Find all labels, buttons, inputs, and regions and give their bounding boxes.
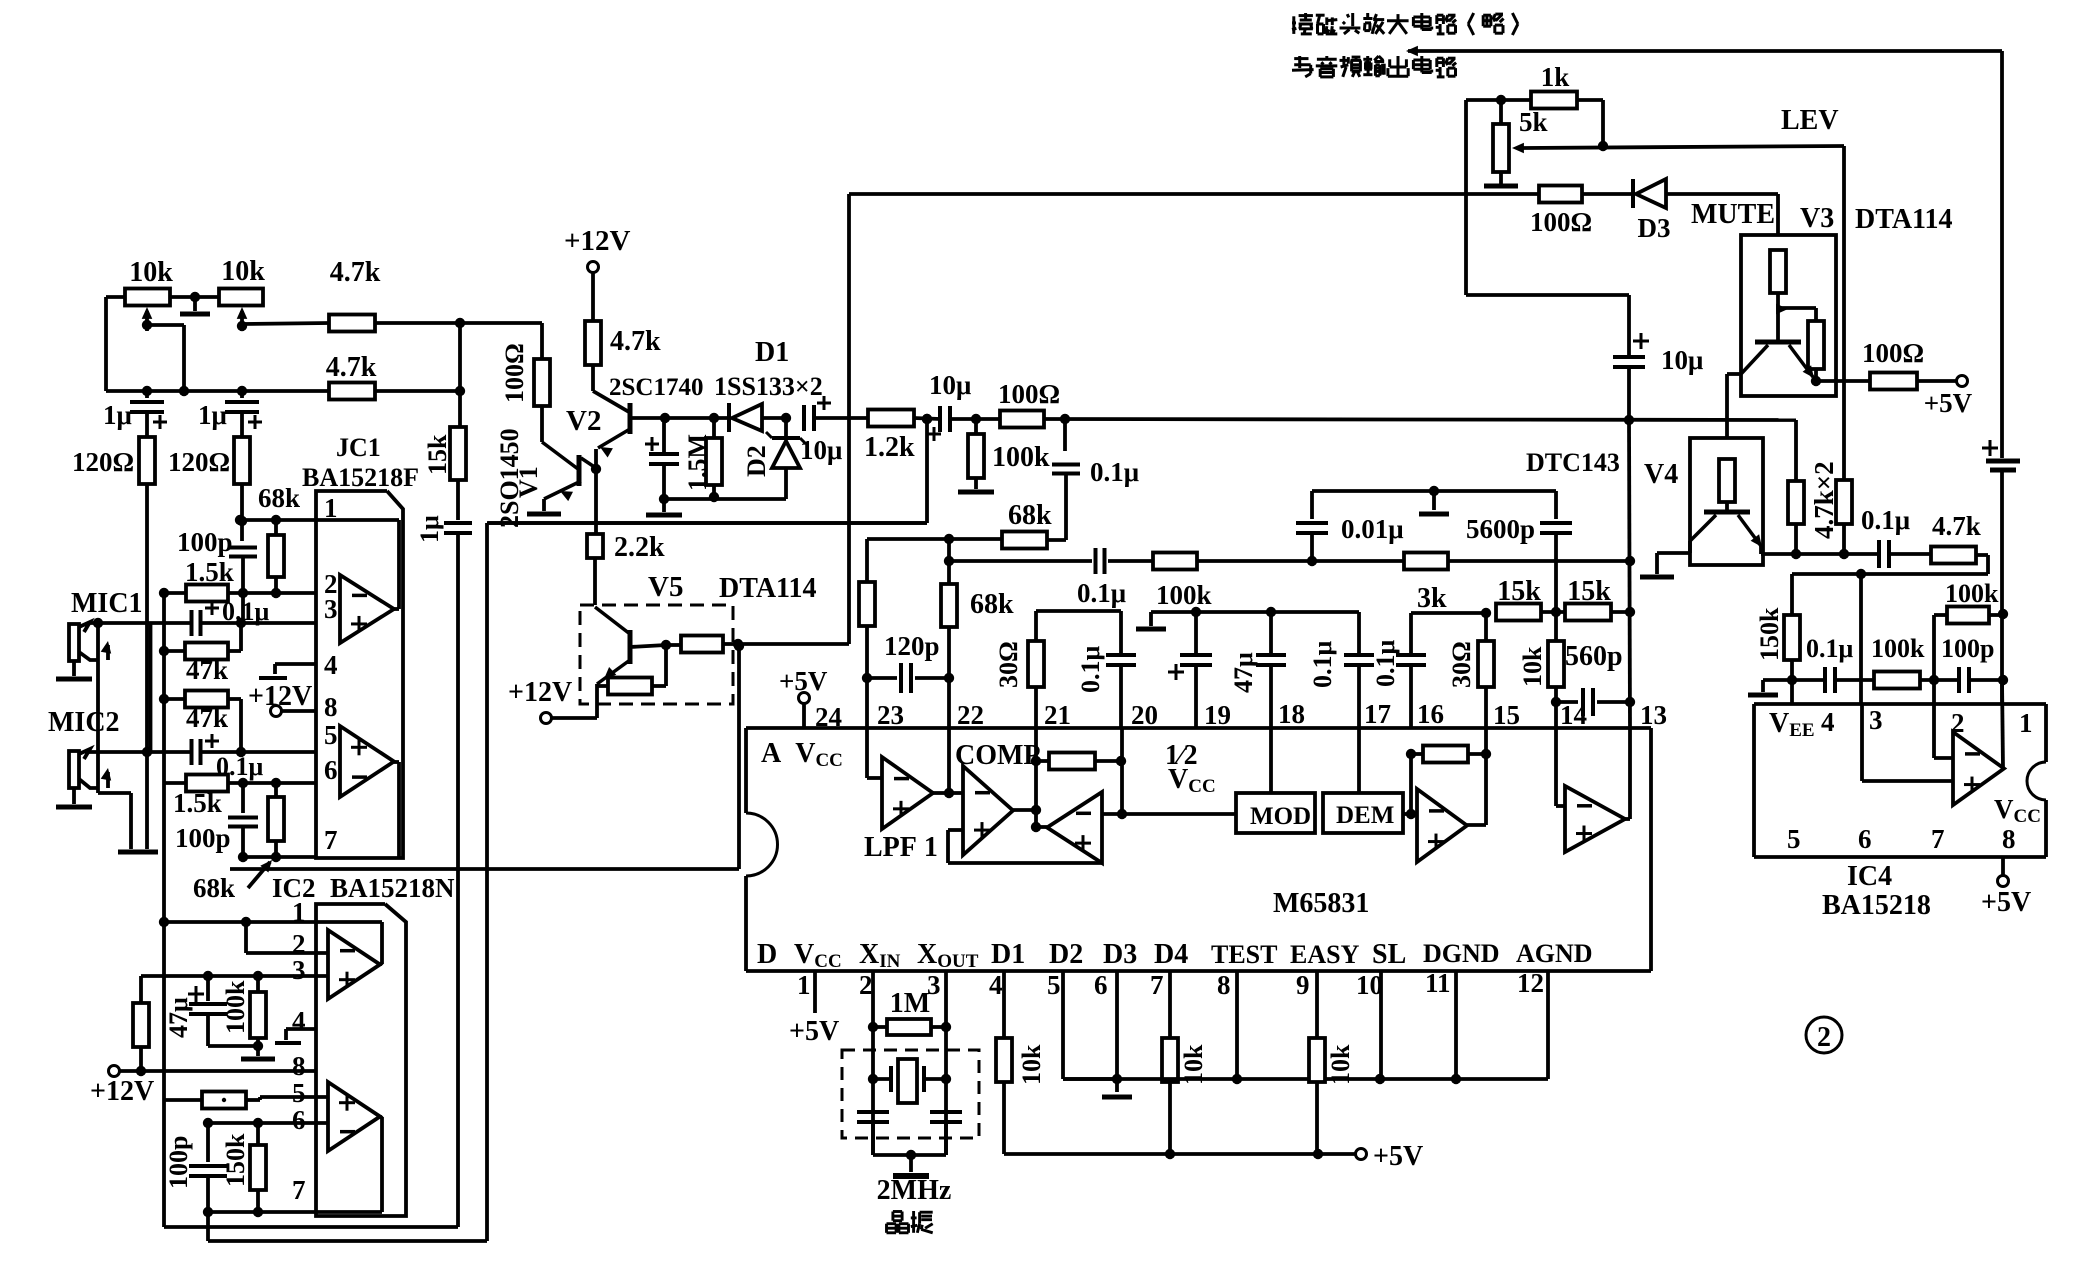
resistor internal 21-20 [1036,753,1126,770]
svg-text:3: 3 [292,955,306,985]
label DGND [1423,939,1500,968]
label DTA114 (V3) [1855,204,1953,235]
label D (pin1) [757,939,777,970]
svg-text:SL: SL [1372,939,1406,970]
label VCC (1/2) [1168,764,1216,797]
label 10k pot1 [129,257,173,288]
svg-text:1μ: 1μ [198,400,227,430]
label 100k (IC2) [221,980,250,1034]
wire V5 base to mute column [738,642,849,646]
wire cap to 1.2k [814,416,868,420]
label 100p #1 [177,527,233,557]
IC2 pin 4 label [292,1006,306,1036]
capacitor 10u (LEV coupling) upper wire [1466,295,1629,355]
wire V4 right leg to output node [1761,546,1849,559]
svg-text:1.5k: 1.5k [185,557,234,587]
label 3k [1417,583,1447,614]
label 10u #1 [800,435,842,465]
op-amp IC4 box [1754,704,2046,857]
ground 1.5M/cap [646,464,682,515]
capacitor xtal left [857,1112,889,1122]
pin 24 terminal +5V [799,693,810,729]
op-amp JC1-B [340,726,394,797]
svg-text:4: 4 [989,970,1003,1000]
wire 120ohm#1 down mic bus [145,484,149,752]
diode D1 [729,403,762,432]
svg-text:150k: 150k [221,1133,250,1187]
label: and audio output circuit (Chinese) line 2 [1292,56,1456,77]
IC2-B output internal wire [316,1117,382,1212]
resistor 100ohm (mute line) [1539,186,1582,203]
svg-text:1k: 1k [1541,62,1570,92]
resistor 100ohm (sig) [1000,411,1044,428]
wire feedback column x487 [485,523,489,1241]
svg-text:1: 1 [2019,708,2033,738]
resistor 47k #1 [185,643,228,660]
svg-text:0.1μ: 0.1μ [1861,505,1910,535]
svg-text:2SC1740: 2SC1740 [609,374,703,401]
wire V4 left leg to ground [1657,541,1690,574]
capacitor 1u #2 [225,391,262,437]
label BA15218N [330,873,455,903]
label +5V (V3) [1924,388,1973,418]
svg-text:15k: 15k [1497,576,1541,607]
label 100ohm (V1) [500,343,529,403]
svg-text:100Ω: 100Ω [1862,338,1924,368]
label 4.7k output [1932,511,1981,541]
resistor 100k (IC4 in) [1874,672,1920,689]
svg-text:COMP: COMP [955,740,1041,771]
wire feedback x927 [922,414,932,523]
pin 9 number [1296,970,1310,1000]
wire MIC1 signal [88,621,190,625]
ground crystal [893,1155,929,1176]
capacitor 100p (IC2) [189,1123,227,1217]
op-amp LPF1 [882,757,933,829]
resistor 4.7k (output) [1931,547,1976,564]
label 2.2k [614,532,665,563]
svg-text:10μ: 10μ [800,435,842,465]
pin 22 number [957,700,984,730]
label 68k pin22 [970,589,1014,620]
svg-text:3k: 3k [1417,583,1447,614]
wire 1k right stub down to LEV [1577,100,1608,151]
V1 emitter [544,481,581,511]
svg-text:47k: 47k [186,703,228,733]
svg-text:4.7k: 4.7k [326,352,377,383]
svg-text:30Ω: 30Ω [1447,641,1476,688]
pin 23 number [877,700,904,730]
wire opampB out [1031,822,1047,832]
transistor V2 [628,403,633,434]
wire V3 emitter out to 100ohm [1816,379,1870,383]
svg-text:12: 12 [1517,968,1544,998]
label BA15218 (IC4) [1822,890,1931,921]
svg-text:3: 3 [324,594,338,624]
wire IC4 pin3 internal [1862,704,1953,781]
label crystal (Chinese) [887,1211,933,1233]
pin 19 number [1204,700,1231,730]
wire IC2 pin7 node [208,1210,316,1214]
capacitor 0.1u (VEE) [1792,667,1874,693]
JC1 pin 6 label [324,755,338,785]
pin 9 column [1309,971,1325,1154]
label 10u #2 [929,370,971,400]
resistor 120ohm #2 [234,437,250,484]
svg-text:9: 9 [1296,970,1310,1000]
svg-text:1SS133×2: 1SS133×2 [714,372,823,401]
label 120ohm #2 [168,447,230,477]
pin 16 number [1417,699,1444,729]
pin 4 column [996,971,1012,1154]
svg-text:LEV: LEV [1781,105,1839,136]
label: to head-amp circuit (Chinese) line 1 [1292,13,1518,35]
svg-text:1M: 1M [890,988,930,1019]
wire pot1 left to lower rail [106,297,125,391]
label 0.1u pin17 [1371,640,1400,688]
JC1-B output internal wire [394,762,399,857]
wire IC2 pin2 jog [246,922,328,953]
mic jack MIC1 [56,622,92,679]
label 5600p [1466,514,1535,544]
V3 internal base node wire [1776,293,1816,342]
V5 base wire [630,640,671,650]
svg-text:100k: 100k [992,442,1050,473]
svg-text:24: 24 [815,702,842,732]
pin 5 column [1063,971,1117,1079]
svg-text:10k: 10k [1326,1044,1355,1085]
svg-text:1μ: 1μ [415,515,444,543]
wire 10u cap to signal node [1627,369,1631,420]
op-amp B (reversed) [1047,792,1102,863]
label COMP [955,740,1041,771]
label 4.7k (V2) [610,326,661,357]
svg-text:47μ: 47μ [164,997,193,1038]
svg-text:100k: 100k [1945,579,1999,608]
svg-text:5: 5 [1787,824,1801,854]
svg-text:D2: D2 [1049,939,1083,970]
svg-text:10k: 10k [1017,1044,1046,1085]
wire long bottom bus y869 [230,867,739,871]
pin 12 column [1546,971,1550,1079]
label 47u pin19 [1229,652,1258,693]
IC4 pin 6 label [1858,824,1872,854]
resistor 10k pin14 [1548,607,1564,728]
V2 emitter [596,429,630,469]
transistor V1 [577,455,582,486]
svg-text:MUTE: MUTE [1691,199,1775,230]
terminal +12V (V5) [541,713,552,724]
capacitor 0.1u (sig) [1052,419,1080,540]
op-amp IC2-A [328,930,380,999]
svg-text:DTA114: DTA114 [1855,204,1953,235]
svg-text:DTC143: DTC143 [1526,448,1620,477]
wire left bus x164 [162,593,166,922]
svg-text:4: 4 [324,650,338,680]
label 120p [884,631,940,661]
wire signal line y419 [1044,414,1796,425]
svg-text:IC4: IC4 [1847,861,1892,892]
V5 base resistor [666,636,743,653]
resistor 100k to ground [958,419,994,492]
svg-text:23: 23 [877,700,904,730]
transistor V3 box [1741,235,1836,396]
svg-text:+5V: +5V [1373,1141,1423,1172]
JC1 pin 5 label [324,720,338,750]
wire opamp5 out [1625,817,1630,821]
label D3 [1638,213,1671,243]
wire pin16 node [1411,611,1486,615]
resistor 4.7k x2 left [1788,420,1804,554]
op-amp 5 (pin13) [1565,786,1625,852]
svg-text:3: 3 [1869,705,1883,735]
resistor 68k (JC1-A fb) [268,520,284,598]
svg-text:4.7k: 4.7k [330,257,381,288]
svg-text:+5V: +5V [1924,388,1973,418]
label JC1 [336,433,381,462]
svg-text:0.1μ: 0.1μ [1090,457,1139,487]
resistor 1.5M [706,413,722,502]
ground rail top [1136,607,1359,629]
wire 4.7k lower to junction [375,386,465,396]
ground below 5k pot [1484,184,1518,189]
wire feedback top y523 [487,521,927,525]
JC1 pin 1 label [324,493,338,523]
box MOD [1236,793,1315,833]
wire +12V rail IC2 [109,1066,317,1077]
capacitor 120p [867,663,949,693]
svg-text:6: 6 [1858,824,1872,854]
svg-text:21: 21 [1044,700,1071,730]
label 4.7kx2 [1809,461,1839,539]
pin 15 number [1493,700,1520,730]
label 1.5k #2 [173,788,222,818]
IC2 pin 8 label [292,1051,306,1081]
capacitor 47u pin19 [1168,612,1212,728]
JC1 pin4 wire [259,664,316,678]
svg-text:20: 20 [1131,700,1158,730]
wire pin22 internal [947,728,951,793]
IC2 pin 2 label [292,929,306,959]
V3 internal base resistor [1770,250,1786,293]
svg-text:47μ: 47μ [1229,652,1258,693]
pin 6 number [1094,970,1108,1000]
wire pin1 node [235,515,316,525]
resistor internal fb (pin15) [1406,746,1491,815]
V2 base wire [630,413,670,423]
label 100k fb [1945,579,1999,608]
svg-text:MOD: MOD [1250,803,1311,830]
resistor 3k [1312,553,1635,570]
wire pot1 wiper branch [147,325,189,396]
wire COMP out [1013,805,1041,815]
JC1 pin 4 label [324,650,338,680]
pin 2 number [859,970,873,1000]
wire pin21 internal [1031,728,1041,827]
wire pin13 column [1629,420,1630,728]
ground between pots [180,297,210,314]
svg-text:22: 22 [957,700,984,730]
label 100k (sig) [992,442,1050,473]
IC4 pin 3 label [1869,705,1883,735]
label 0.1u (sig) [1090,457,1139,487]
wire LEV vertical [1842,146,1846,480]
svg-text:+12V: +12V [90,1076,154,1107]
label MIC2 [48,707,120,738]
wire JC1 pin7 [243,855,316,859]
label 5k [1519,107,1548,137]
label 10k pin4 [1017,1044,1046,1085]
svg-text:6: 6 [324,755,338,785]
wire x164 down to small resistor [162,922,166,1100]
svg-text:2: 2 [859,970,873,1000]
label 100p #2 [175,823,231,853]
pin 6 column [1102,971,1132,1097]
svg-text:10k: 10k [1518,646,1547,687]
JC1 pin 7 label [324,825,338,855]
label EASY [1290,940,1360,969]
label 100ohm mute [1530,207,1592,237]
resistor 15k (x458) [450,427,466,480]
op-amp IC2 box [316,904,406,1216]
resistor 68k pin23 column [859,539,875,728]
resistor 4.7k x2 right [1836,480,1852,554]
label 10k pin9 [1326,1044,1355,1085]
bracket pin21-pin20 [1036,611,1121,655]
IC2 pin 3 label [292,955,306,985]
label 0.1u pin20 [1076,646,1105,694]
capacitor 0.1u (output) [1844,540,1931,568]
svg-text:D3: D3 [1103,939,1137,970]
label 0.1u mid [1077,578,1126,608]
label 47k #2 [186,703,228,733]
wire mute column x849 [847,194,851,644]
svg-text:5k: 5k [1519,107,1548,137]
resistor 1.5k #2 [186,775,228,792]
svg-text:47k: 47k [186,655,228,685]
label 10k pot2 [221,256,265,287]
pin 11 column [1454,971,1458,1079]
op-amp IC4-A [1953,732,2004,805]
label 1.2k [864,432,915,463]
label 68k with pointer (IC2) [193,860,272,903]
IC4 pin8 terminal [1998,857,2009,887]
wire pin20 internal [1120,728,1124,814]
resistor 100k (mid rail) [1108,553,1312,570]
label 120ohm #1 [72,447,134,477]
pin 4 number [989,970,1003,1000]
resistor 1M [873,1019,946,1035]
pot2 wiper arrow [237,307,248,331]
svg-text:+12V: +12V [508,677,572,708]
wire 1k left stub [1466,95,1531,105]
svg-text:BA15218N: BA15218N [330,873,455,903]
label 0.01u [1341,514,1404,544]
svg-text:100k: 100k [1871,634,1925,663]
label 100p IC4 [1941,634,1994,663]
label 1k [1541,62,1570,92]
label SL [1372,939,1406,970]
wire IC2 pin6 node [203,1118,328,1128]
capacitor 0.1u pin18 [1256,612,1286,728]
svg-text:100Ω: 100Ω [998,379,1060,409]
wire pin13 internal [1628,728,1632,819]
label VEE pin4 [1769,707,1835,741]
label MUTE [1691,199,1775,230]
svg-text:68k: 68k [193,873,235,903]
resistor 68k (JC1-B fb) [268,783,284,862]
svg-text:DTA114: DTA114 [719,573,817,604]
label 1M [890,988,930,1019]
resistor 47k #2 [185,691,228,708]
capacitor 100p #2 [228,783,258,862]
capacitor 1.5M cap (V2 base) [645,418,679,464]
label 100ohm +5V [1862,338,1924,368]
pin 11 number [1425,968,1451,998]
capacitor xtal right [930,1112,962,1122]
resistor 68k (fb) [1002,532,1066,549]
capacitor 10u (LEV coupling) [1613,333,1649,367]
label 2SC1740 [609,374,703,401]
pin 21 number [1044,700,1071,730]
svg-text:120p: 120p [884,631,940,661]
label 30ohm pin15 [1447,641,1476,688]
wire 100k to 100p [1920,675,1957,685]
terminal +12V V2 [588,262,599,322]
resistor 30ohm pin21 [1028,641,1044,728]
label +12V (JC1) [248,681,312,712]
svg-text:+5V: +5V [1981,887,2031,918]
terminal +12V JC1 pin8 [271,706,317,717]
capacitor 10u series #2 [927,406,950,441]
svg-text:100p: 100p [164,1136,193,1189]
svg-text:8: 8 [324,692,338,722]
svg-text:1.5k: 1.5k [173,788,222,818]
label 150k (IC4) [1755,607,1784,661]
svg-text:0.1μ: 0.1μ [1806,634,1854,663]
wire 100ohm to D3 [1582,192,1634,196]
svg-text:4: 4 [292,1006,306,1036]
resistor 1k [1531,92,1577,109]
capacitor C-out 10u polarized (right edge) [1982,440,2020,470]
label D4 (pin7) [1154,939,1188,970]
svg-text:15k: 15k [423,434,452,475]
label V3 [1800,203,1834,234]
label 1SS133x2 [714,372,823,401]
pin 1 number [797,970,811,1000]
resistor 1.5k #1 [186,585,228,602]
ground VEE [1748,680,1792,695]
label IC4 [1847,861,1892,892]
label V2 [566,405,601,437]
wire pin2 node [159,588,316,598]
label TEST [1211,940,1278,969]
label IC2 [272,873,316,903]
resistor (IC2 bias) vertical [133,976,149,1076]
svg-text:BA15218F: BA15218F [302,463,419,492]
wire 100p column to bottom bus [206,1212,210,1241]
label DTA114 (V5) [719,573,817,604]
svg-text:D: D [757,939,777,970]
resistor 4.7k (V2 collector) [585,321,601,365]
svg-text:10k: 10k [221,256,265,287]
label BA15218F (JC1) [302,463,419,492]
svg-text:5: 5 [324,720,338,750]
svg-text:13: 13 [1640,700,1667,730]
pin 24 number [815,702,842,732]
IC2-A output internal wire [316,922,382,964]
svg-text:DGND: DGND [1423,939,1500,968]
